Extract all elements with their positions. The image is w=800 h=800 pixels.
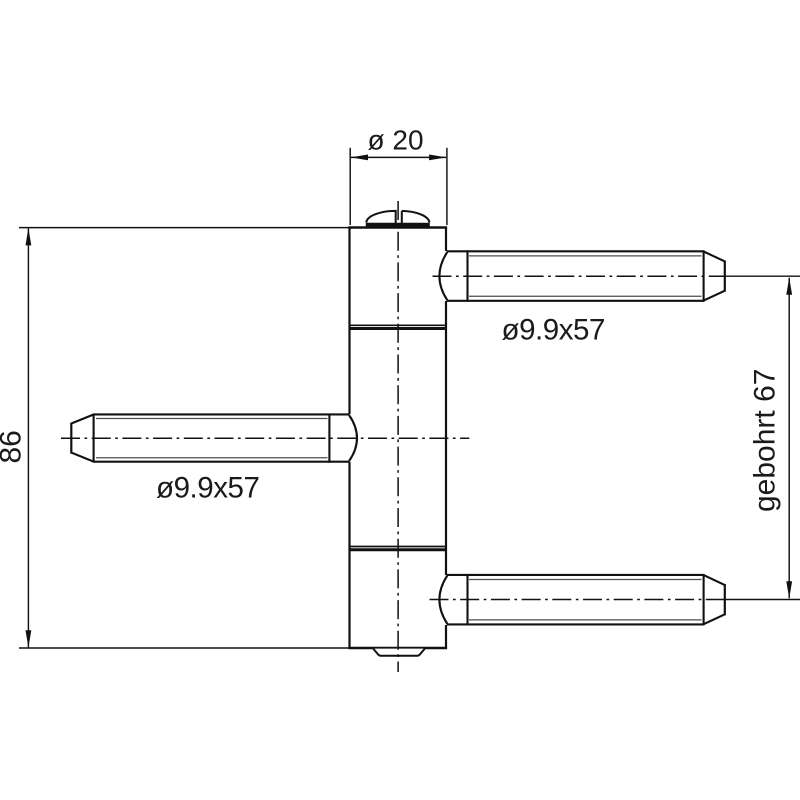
bottom pin cone flat end bbox=[724, 584, 726, 615]
hinge body right edge upper segment bbox=[445, 227, 447, 252]
bottom pin cap separator bbox=[466, 574, 468, 625]
top pin cone bottom slant bbox=[704, 291, 725, 301]
top pin body bottom line bbox=[468, 300, 705, 302]
dimension ø20 left extension line bbox=[349, 148, 351, 225]
bottom pin body bottom line bbox=[468, 623, 705, 625]
svg-text:ø 20: ø 20 bbox=[367, 125, 423, 156]
left pin body top line bbox=[94, 413, 330, 415]
left pin cap arc bbox=[349, 415, 357, 461]
top pin cap separator bbox=[466, 250, 468, 301]
bottom pin extension line to dimension bbox=[725, 599, 800, 601]
knuckle joint lower thin line bbox=[349, 546, 446, 548]
hinge body bottom edge bbox=[348, 647, 447, 649]
hinge body top edge bbox=[348, 226, 447, 228]
dimension gebohrt 67 bottom arrow bbox=[786, 581, 792, 598]
hinge body left edge lower segment bbox=[348, 462, 350, 649]
left pin cone separator bbox=[93, 414, 95, 463]
top pin thread upper line bbox=[469, 255, 702, 257]
top pin cone flat end bbox=[724, 260, 726, 291]
left pin cap bottom line bbox=[329, 461, 350, 463]
top pin thread lower line bbox=[469, 295, 702, 297]
dimension 86 line bbox=[27, 228, 29, 647]
knuckle joint upper thin line bbox=[349, 324, 446, 326]
top pin cap bottom line bbox=[447, 300, 469, 302]
top screw head base bbox=[366, 223, 430, 228]
top screw head left arc bbox=[366, 211, 395, 226]
bottom pin cap arc bbox=[439, 576, 447, 624]
top pin cone top slant bbox=[704, 252, 725, 262]
left pin centerline bbox=[61, 437, 469, 439]
dimension 86 top extension line bbox=[19, 227, 349, 229]
hinge body right edge lower segment bbox=[445, 625, 447, 649]
left pin cone bottom slant bbox=[72, 453, 94, 462]
top screw head right arc bbox=[402, 211, 430, 226]
bottom pin cone top slant bbox=[704, 575, 725, 585]
bottom pin cone separator bbox=[703, 574, 705, 625]
left pin thread upper line bbox=[96, 418, 328, 420]
top pin centerline bbox=[433, 275, 726, 277]
dimension gebohrt 67 top arrow bbox=[786, 277, 792, 294]
svg-text:86: 86 bbox=[0, 430, 28, 463]
hinge body right edge middle segment bbox=[445, 301, 447, 575]
vertical centerline of body bbox=[397, 201, 399, 672]
dimension 86 top arrow bbox=[26, 228, 32, 245]
left pin cap separator bbox=[328, 414, 330, 463]
bottom pin body top line bbox=[468, 574, 705, 576]
bottom pin cone bottom slant bbox=[704, 614, 725, 624]
bottom pin centerline bbox=[430, 599, 726, 601]
svg-text:ø9.9x57: ø9.9x57 bbox=[156, 472, 259, 505]
left pin cone flat end bbox=[70, 423, 72, 454]
top pin cap arc bbox=[439, 252, 447, 300]
dimension ø20 left arrow bbox=[351, 155, 368, 161]
top pin cone separator bbox=[703, 250, 705, 301]
bottom pin cap bottom line bbox=[447, 623, 469, 625]
dimension ø20 right arrow bbox=[429, 155, 446, 161]
bottom pin thread lower line bbox=[469, 619, 702, 621]
knuckle joint upper thick line bbox=[349, 327, 446, 330]
svg-text:ø9.9x57: ø9.9x57 bbox=[502, 314, 605, 347]
bottom screw tip bbox=[373, 649, 425, 656]
top pin body top line bbox=[468, 250, 705, 252]
left pin thread lower line bbox=[96, 457, 328, 459]
left pin body bottom line bbox=[94, 461, 330, 463]
dimension ø20 right extension line bbox=[446, 148, 448, 225]
left pin cap top line bbox=[329, 413, 350, 415]
bottom pin thread upper line bbox=[469, 579, 702, 581]
dimension 86 bottom extension line bbox=[19, 647, 349, 649]
hinge body left edge upper segment bbox=[348, 227, 350, 415]
dimension gebohrt 67 line bbox=[788, 278, 790, 598]
knuckle joint lower thick line bbox=[349, 548, 446, 551]
dimension 86 bottom arrow bbox=[26, 630, 32, 647]
top pin cap top line bbox=[447, 250, 469, 252]
top pin extension line to dimension bbox=[725, 275, 800, 277]
bottom pin cap top line bbox=[447, 574, 469, 576]
dimension ø20 line bbox=[351, 156, 446, 158]
svg-text:gebohrt 67: gebohrt 67 bbox=[749, 369, 782, 512]
left pin cone top slant bbox=[72, 415, 94, 424]
